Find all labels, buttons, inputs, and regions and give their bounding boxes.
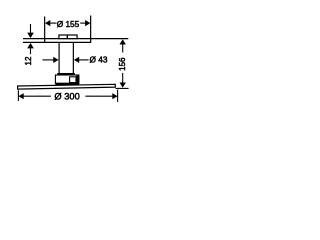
svg-text:Ø 155: Ø 155 — [57, 19, 80, 29]
ceiling line — [23, 38, 128, 40]
Ø300 extension right — [117, 90, 119, 102]
ceiling plate right edge / extension Ø155 right — [90, 16, 92, 44]
svg-text:Ø 300: Ø 300 — [54, 92, 79, 102]
156 lower tail — [122, 73, 124, 83]
156 bottom extension line — [116, 87, 129, 89]
Ø300 tail left — [23, 95, 51, 97]
svg-text:12: 12 — [24, 56, 33, 65]
Ø43 tail left — [43, 59, 54, 61]
156 arrow down — [120, 83, 126, 88]
12 arrow down — [27, 33, 34, 39]
156 arrow up — [120, 39, 126, 44]
Ø155 tail right — [80, 22, 86, 24]
connector inner box — [70, 77, 76, 83]
12 arrow up — [27, 43, 34, 49]
Ø155 tail left — [50, 22, 57, 24]
svg-text:156: 156 — [118, 57, 127, 71]
pipe left wall — [58, 42, 60, 73]
collar seam — [66, 35, 68, 39]
Ø155 arrow right — [85, 20, 90, 26]
Ø155 arrow left — [45, 20, 50, 26]
dimension Ø43 — [43, 59, 89, 61]
12 lower tail — [30, 49, 32, 55]
Ø43 tail right — [79, 59, 89, 61]
pipe right wall — [72, 42, 74, 73]
Ø43 arrow right — [74, 57, 79, 63]
collar on plate — [59, 35, 77, 39]
12 upper tail — [30, 24, 32, 33]
Ø300 extension left — [17, 90, 19, 101]
hub bar — [55, 83, 79, 85]
dimension 12 — [30, 24, 32, 54]
dimension Ø300 — [18, 90, 117, 102]
Ø300 tail right — [85, 95, 112, 97]
svg-text:Ø 43: Ø 43 — [90, 55, 108, 65]
ceiling plate left edge / extension Ø155 left — [44, 17, 46, 44]
Ø300 arrow right — [112, 93, 117, 99]
connector box — [55, 75, 79, 83]
ceiling plate bottom line — [23, 41, 91, 43]
Ø300 arrow left — [18, 93, 23, 99]
shower plate — [18, 84, 116, 89]
pipe nut — [57, 73, 75, 75]
Ø43 arrow left — [53, 57, 58, 63]
connector dark strip — [76, 76, 79, 84]
dimension 156 — [116, 44, 129, 88]
dimension Ø155 — [50, 22, 87, 24]
156 upper tail — [122, 44, 124, 52]
